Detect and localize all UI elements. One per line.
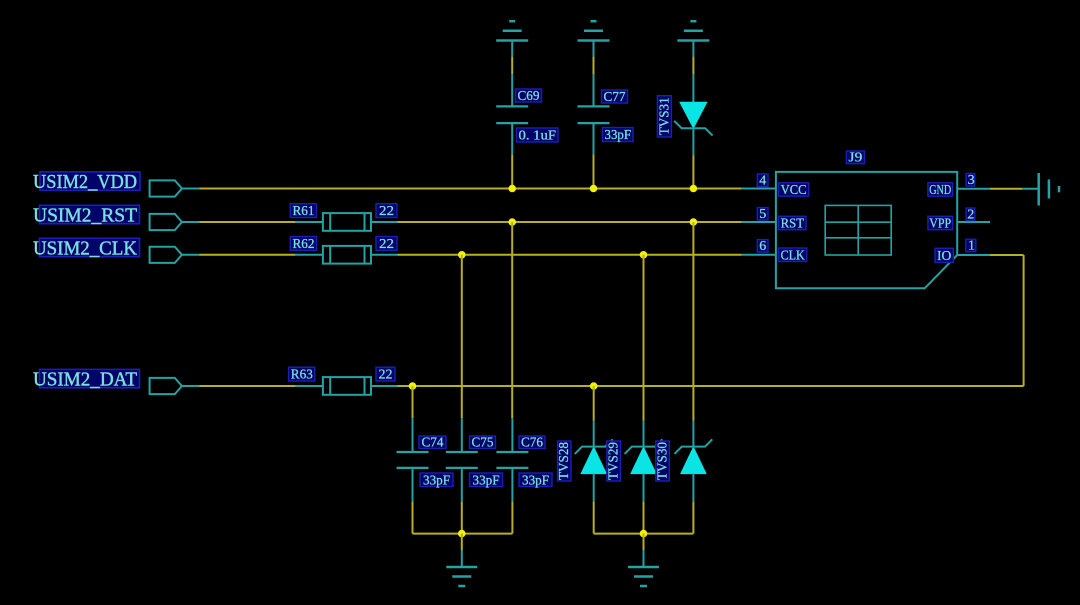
wire CLK port stub: [182, 254, 200, 256]
svg-text:RST: RST: [781, 217, 805, 232]
resistor R61: [296, 213, 398, 231]
diode TVS29: [625, 421, 663, 502]
junction C77/VDD: [590, 185, 598, 193]
wire DAT row right: [398, 385, 1024, 387]
svg-text:33pF: 33pF: [522, 473, 549, 488]
svg-text:USIM2_DAT: USIM2_DAT: [33, 369, 137, 391]
wire RST row right: [398, 221, 742, 223]
label C74: [419, 436, 446, 451]
svg-text:J9: J9: [848, 151, 862, 166]
label pin number 4: [757, 174, 768, 189]
junction CLK/TVS29 riser: [640, 251, 648, 259]
label pin number 5: [757, 207, 768, 222]
capacitor C77: [578, 74, 610, 155]
ground GND5 bottom right: [628, 550, 659, 586]
label C69 value 0.1uF: [517, 128, 559, 143]
wire DAT riser to IO: [1023, 255, 1025, 386]
svg-text:USIM2_CLK: USIM2_CLK: [33, 237, 138, 259]
svg-text:C74: C74: [422, 436, 444, 451]
J9 pin 4 lead: [742, 188, 776, 190]
wire TVS31 to VDD row: [692, 155, 694, 188]
svg-text:4: 4: [759, 174, 766, 189]
label pin number 3: [966, 173, 975, 188]
wire DAT row left: [200, 385, 296, 387]
svg-text:33pF: 33pF: [423, 473, 450, 488]
wire C74 riser from DAT: [412, 386, 414, 418]
svg-text:C77: C77: [604, 90, 626, 105]
J9 pin 3 lead (GND): [957, 188, 990, 190]
J9 pin 5 lead: [742, 221, 776, 223]
wire IO link: [990, 254, 1024, 256]
label C75 value 33pF: [470, 473, 503, 488]
svg-text:1: 1: [968, 239, 975, 254]
label TVS29: [607, 441, 622, 481]
svg-text:VPP: VPP: [929, 217, 951, 232]
label R63 value 22: [376, 367, 395, 382]
port USIM2_CLK: [150, 247, 182, 263]
wire TVS28 riser from DAT: [593, 386, 595, 421]
label USIM2_CLK: [33, 237, 140, 259]
J9 pin 6 lead: [742, 254, 776, 256]
svg-text:C69: C69: [518, 89, 540, 104]
wire C69 to VDD row: [511, 155, 513, 189]
wire GND3 to TVS31: [692, 57, 694, 74]
label R61 value 22: [376, 204, 397, 219]
label pin name IO: [935, 248, 953, 264]
svg-text:6: 6: [759, 239, 766, 254]
capacitor C69: [496, 74, 528, 155]
label C69: [516, 89, 542, 104]
wire CLK row right: [398, 254, 742, 256]
wire left bottom rail: [413, 533, 513, 535]
label R63: [289, 367, 315, 382]
svg-text:USIM2_RST: USIM2_RST: [33, 205, 137, 227]
wire CLK row left: [200, 254, 296, 256]
svg-text:TVS31: TVS31: [658, 97, 673, 135]
ground GND2 top (above C77): [578, 21, 610, 56]
junction RST/C76 riser: [508, 218, 516, 226]
junction CLK/C75 riser: [458, 251, 466, 259]
wire C75 riser from CLK: [461, 255, 463, 418]
svg-text:USIM2_VDD: USIM2_VDD: [33, 171, 137, 193]
wire C74 down: [412, 502, 414, 534]
connector J9 body: [776, 172, 957, 288]
svg-text:3: 3: [968, 173, 975, 188]
label pin number 2: [966, 208, 975, 223]
wire C75 down: [461, 502, 463, 534]
junction right rail: [640, 530, 648, 538]
capacitor C75: [446, 418, 478, 501]
label R62: [290, 237, 316, 252]
label C77: [602, 90, 628, 105]
wire VDD port stub: [182, 188, 200, 190]
svg-text:22: 22: [379, 204, 394, 219]
ground GND3 top (above TVS31): [677, 21, 709, 56]
label C76 value 33pF: [519, 473, 552, 488]
label pin name GND: [928, 183, 953, 198]
label C74 value 33pF: [420, 473, 453, 488]
wire DAT port stub: [182, 385, 200, 387]
label TVS31: [657, 96, 672, 137]
svg-text:IO: IO: [937, 249, 951, 264]
svg-text:22: 22: [379, 237, 394, 252]
svg-text:TVS30: TVS30: [656, 442, 671, 480]
label USIM2_VDD: [33, 171, 140, 193]
svg-text:TVS28: TVS28: [557, 442, 572, 480]
svg-text:VCC: VCC: [781, 183, 807, 198]
J9 pin 1 lead (IO): [957, 254, 990, 256]
wire RST row left: [200, 221, 296, 223]
svg-text:0. 1uF: 0. 1uF: [519, 128, 557, 143]
junction DAT/TVS28 riser: [590, 382, 598, 390]
wire GND link: [990, 188, 1022, 190]
wire right ground stem: [643, 534, 645, 550]
capacitor C76: [496, 418, 528, 501]
ground GND4 bottom left: [446, 550, 477, 586]
svg-text:33pF: 33pF: [473, 473, 500, 488]
wire GND1 to C69: [511, 57, 513, 74]
wire TVS30 riser from RST: [692, 222, 694, 421]
svg-text:5: 5: [759, 207, 766, 222]
junction TVS31/VDD: [690, 185, 698, 193]
svg-text:R63: R63: [291, 368, 313, 383]
label pin name VPP: [928, 216, 953, 231]
wire GND2 to C77: [593, 57, 595, 74]
label C77 value 33pF: [603, 128, 634, 143]
wire C77 to VDD row: [593, 155, 595, 189]
svg-text:C75: C75: [472, 436, 494, 451]
port USIM2_VDD: [150, 180, 182, 196]
resistor R62: [296, 246, 398, 264]
ground GND1 top (above C69): [496, 21, 528, 56]
label pin number 1: [966, 239, 976, 254]
diode TVS30: [675, 421, 713, 502]
svg-text:R61: R61: [293, 204, 315, 219]
svg-text:GND: GND: [929, 183, 951, 198]
wire TVS29 down: [643, 502, 645, 534]
ground GND6 right (at pin 3): [1022, 173, 1059, 206]
wire TVS29 riser from CLK: [643, 255, 645, 421]
label USIM2_DAT: [33, 369, 140, 391]
wire C76 riser from RST: [511, 222, 513, 418]
svg-text:CLK: CLK: [781, 248, 805, 263]
label R62 value 22: [376, 237, 397, 252]
label R61: [290, 204, 316, 219]
diode TVS28: [575, 421, 613, 502]
J9 pin 2 lead (VPP): [957, 221, 990, 223]
label pin name CLK: [779, 248, 807, 263]
svg-text:C76: C76: [521, 436, 543, 451]
label C75: [470, 436, 496, 451]
label pin name RST: [779, 216, 806, 231]
capacitor C74: [397, 418, 429, 501]
label TVS28: [557, 441, 572, 481]
label pin name VCC: [779, 183, 809, 198]
junction C69/VDD: [508, 185, 516, 193]
label C76: [519, 436, 545, 451]
svg-text:TVS29: TVS29: [607, 442, 622, 480]
wire TVS30 down: [692, 502, 694, 534]
label J9: [846, 151, 864, 166]
junction left rail: [458, 530, 466, 538]
wire C76 down: [511, 502, 513, 534]
svg-text:R62: R62: [293, 237, 315, 252]
port USIM2_DAT: [150, 378, 182, 394]
label TVS30: [656, 441, 671, 481]
junction DAT/C74 riser: [409, 382, 417, 390]
resistor R63: [296, 377, 398, 395]
diode TVS31: [674, 74, 712, 155]
wire right bottom rail: [594, 533, 694, 535]
port USIM2_RST: [150, 214, 182, 230]
label pin number 6: [757, 239, 768, 254]
J9 SIM contact grid: [825, 205, 891, 255]
svg-text:33pF: 33pF: [605, 128, 632, 143]
wire VDD row: [200, 188, 742, 190]
label USIM2_RST: [33, 205, 140, 227]
wire left ground stem: [461, 534, 463, 550]
svg-text:22: 22: [379, 368, 393, 383]
junction RST/TVS30 riser: [690, 218, 698, 226]
wire TVS28 down: [593, 502, 595, 534]
wire RST port stub: [182, 221, 200, 223]
svg-text:2: 2: [967, 208, 974, 223]
